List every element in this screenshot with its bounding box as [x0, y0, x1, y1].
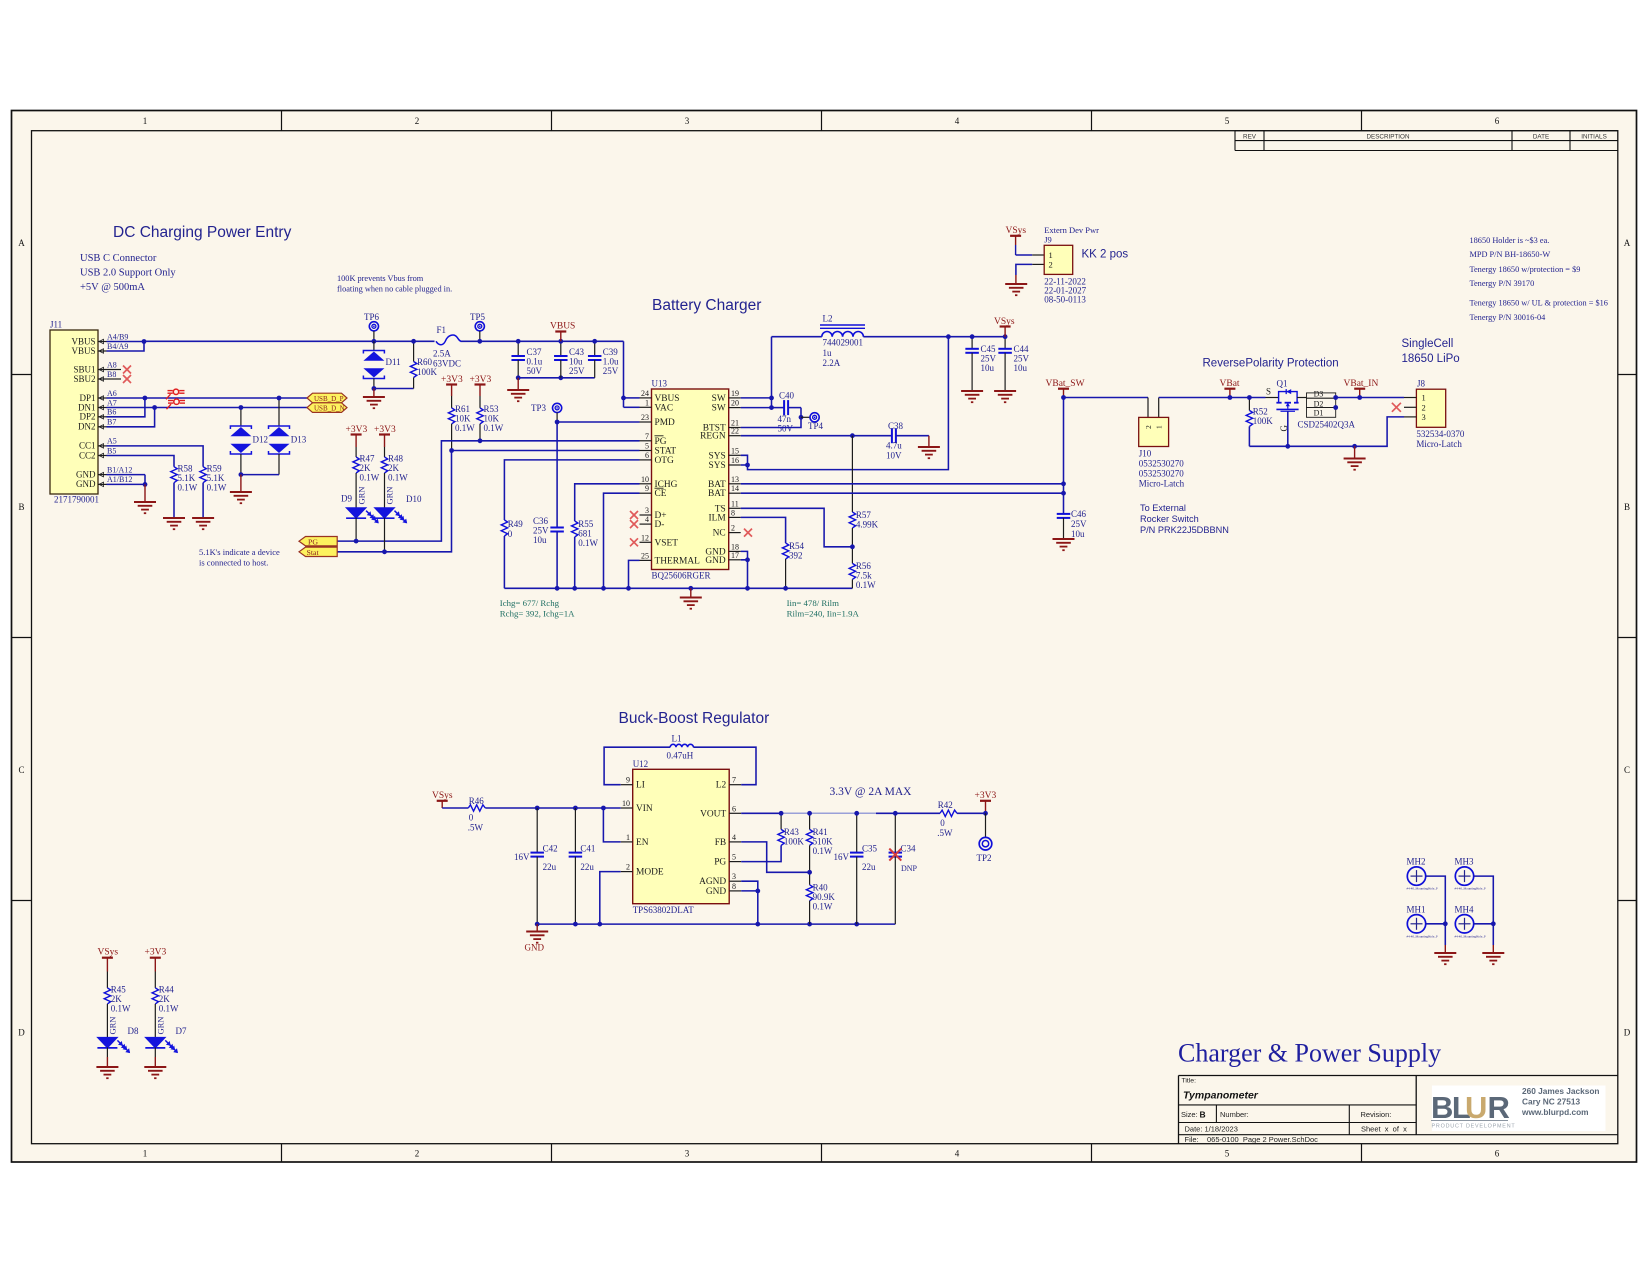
wire VBUS A4/B9 — [107, 341, 145, 343]
test point TP4 — [801, 416, 810, 418]
capacitor C41 — [574, 808, 576, 853]
wire VOUT net — [741, 812, 781, 814]
junction DP — [143, 396, 148, 401]
svg-text:0.1W: 0.1W — [484, 423, 504, 433]
svg-text:Title:: Title: — [1182, 1078, 1197, 1085]
wire OTG net — [504, 460, 639, 520]
svg-text:25V: 25V — [1014, 354, 1030, 364]
capacitor C44 — [1004, 337, 1006, 349]
junction C41 VIN — [573, 806, 578, 811]
wire BTST net — [741, 408, 801, 428]
U13 pin 11 TS — [729, 507, 741, 509]
wire R42 to 3V3 — [957, 812, 986, 814]
inductor L2 — [772, 336, 822, 338]
junction R61 STAT — [449, 448, 454, 453]
svg-text:5.1K's indicate a device: 5.1K's indicate a device — [199, 547, 280, 557]
svg-text:6: 6 — [1495, 1149, 1500, 1159]
ground MH3 MH4 — [1482, 952, 1504, 954]
svg-text:P/N PRK22J5DBBNN: P/N PRK22J5DBBNN — [1140, 525, 1229, 535]
svg-text:1: 1 — [1155, 425, 1164, 429]
svg-text:16V: 16V — [834, 852, 850, 862]
svg-text:C: C — [1624, 765, 1630, 775]
wire AGND GND pins — [741, 881, 758, 891]
svg-text:25V: 25V — [981, 354, 997, 364]
svg-text:90.9K: 90.9K — [813, 892, 836, 902]
LED D10 — [375, 508, 395, 519]
svg-text:C35: C35 — [862, 844, 878, 854]
svg-text:R: R — [1488, 1090, 1510, 1125]
wire MH2 MH1 gnd — [1426, 876, 1446, 945]
junction SW pin19 — [769, 396, 774, 401]
svg-text:R47: R47 — [360, 454, 376, 464]
U12 pin 9 LI — [621, 784, 633, 786]
gnd rail U13 — [504, 587, 852, 589]
svg-text:Date: 1/18/2023: Date: 1/18/2023 — [1185, 1125, 1238, 1134]
svg-text:9: 9 — [645, 484, 649, 493]
svg-text:C44: C44 — [1014, 344, 1030, 354]
svg-text:1: 1 — [143, 1149, 148, 1159]
svg-text:25V: 25V — [603, 366, 619, 376]
svg-text:1: 1 — [626, 833, 630, 842]
svg-text:10u: 10u — [533, 535, 547, 545]
svg-text:D: D — [18, 1028, 25, 1038]
svg-text:D13: D13 — [291, 435, 307, 445]
capacitor C36 — [550, 527, 564, 529]
test point TP3 — [553, 403, 562, 412]
svg-text:25V: 25V — [533, 526, 549, 536]
U13 pin 14 BAT — [729, 492, 741, 494]
svg-text:VOUT: VOUT — [700, 809, 726, 819]
svg-text:08-50-0113: 08-50-0113 — [1044, 295, 1086, 305]
wire VSys to J9 pin1 — [1016, 254, 1033, 256]
power flag +3V3 (output) — [980, 800, 991, 802]
resistor R60 — [413, 341, 415, 361]
wire R53 to PG — [479, 424, 481, 441]
svg-text:B: B — [1200, 1110, 1206, 1120]
svg-text:22u: 22u — [862, 862, 876, 872]
test point TP6 — [369, 322, 378, 331]
net flag Stat — [299, 547, 337, 556]
resistor R49 — [501, 520, 507, 536]
svg-text:AGND: AGND — [699, 877, 726, 887]
resistor R53 — [477, 408, 483, 424]
svg-text:SBU1: SBU1 — [73, 364, 95, 374]
svg-text:3.3V @ 2A MAX: 3.3V @ 2A MAX — [830, 786, 913, 798]
svg-text:SingleCell: SingleCell — [1402, 338, 1454, 350]
svg-text:2.2A: 2.2A — [823, 358, 841, 368]
wire VBat_SW net — [1064, 397, 1149, 399]
svg-text:18650 Holder is ~$3 ea.: 18650 Holder is ~$3 ea. — [1470, 236, 1550, 245]
svg-text:C46: C46 — [1071, 509, 1087, 519]
wire R57 R56 node — [851, 528, 853, 563]
svg-text:.5W: .5W — [937, 828, 953, 838]
wire PG net — [337, 441, 639, 541]
svg-text:PRODUCT DEVELOPMENT: PRODUCT DEVELOPMENT — [1432, 1124, 1516, 1130]
J11 pin A8 SBU1 — [98, 369, 107, 371]
junction TP3 PMD — [555, 420, 560, 425]
svg-text:R56: R56 — [856, 561, 872, 571]
U13 pin 12 VSET — [640, 541, 652, 543]
svg-text:CC1: CC1 — [79, 441, 96, 451]
svg-text:18650 LiPo: 18650 LiPo — [1402, 353, 1460, 365]
ground C37 — [517, 378, 519, 389]
junction C43 top — [558, 339, 563, 344]
no-connect U13 D- — [630, 520, 638, 528]
junction TP6 — [372, 339, 377, 344]
J11 pin B6 DP2 — [98, 416, 107, 418]
svg-text:R59: R59 — [207, 464, 223, 474]
svg-text:B4/A9: B4/A9 — [107, 342, 128, 351]
U12 pin 7 L2 — [729, 784, 741, 786]
junction TP2 — [983, 811, 988, 816]
junction R60 top — [411, 339, 416, 344]
svg-text:Extern Dev Pwr: Extern Dev Pwr — [1044, 225, 1099, 235]
svg-text:R57: R57 — [856, 510, 872, 520]
svg-text:63VDC: 63VDC — [433, 359, 461, 369]
svg-text:MH3: MH3 — [1455, 857, 1475, 867]
svg-text:F1: F1 — [437, 325, 447, 335]
svg-text:C39: C39 — [603, 347, 619, 357]
svg-text:#4-40_MountingHole_P: #4-40_MountingHole_P — [1407, 887, 1438, 891]
svg-text:SYS: SYS — [708, 451, 725, 461]
svg-text:5: 5 — [1225, 1149, 1230, 1159]
wire cap commons — [518, 377, 595, 379]
svg-text:GRN: GRN — [385, 487, 395, 505]
svg-text:0: 0 — [469, 813, 474, 823]
wire D10 to Stat — [384, 518, 386, 552]
svg-text:C41: C41 — [580, 844, 595, 854]
svg-text:KK 2 pos: KK 2 pos — [1082, 249, 1129, 261]
svg-text:+3V3: +3V3 — [470, 375, 492, 385]
svg-text:TP6: TP6 — [364, 312, 380, 322]
title block — [1179, 1075, 1618, 1077]
svg-text:A5: A5 — [107, 437, 117, 446]
resistor R44 — [152, 988, 158, 1004]
svg-text:Number:: Number: — [1220, 1110, 1249, 1119]
junction gnd stem rail — [1352, 444, 1357, 449]
junction C37 top — [516, 339, 521, 344]
svg-text:22: 22 — [731, 427, 739, 436]
svg-text:2.5A: 2.5A — [433, 349, 451, 359]
svg-text:VSys: VSys — [98, 948, 119, 958]
svg-text:THERMAL: THERMAL — [655, 556, 701, 566]
wire TS net — [741, 508, 853, 547]
ground C46 — [1053, 538, 1075, 540]
junction EN VIN — [601, 806, 606, 811]
svg-text:GND: GND — [706, 887, 727, 897]
U13 pin 16 SYS — [729, 464, 741, 466]
svg-text:R42: R42 — [938, 800, 953, 810]
svg-text:25V: 25V — [569, 366, 585, 376]
no-connect C34 DNP mark — [889, 849, 901, 861]
svg-text:0: 0 — [940, 818, 945, 828]
wire drain common — [1336, 397, 1360, 399]
svg-text:TP5: TP5 — [470, 312, 486, 322]
svg-text:Tympanometer: Tympanometer — [1183, 1090, 1259, 1102]
svg-text:47n: 47n — [778, 414, 792, 424]
U13 pin 7 PG — [640, 440, 652, 442]
gnd rail buck — [537, 923, 895, 925]
svg-text:R48: R48 — [388, 454, 404, 464]
svg-text:GND: GND — [76, 469, 96, 479]
svg-text:22u: 22u — [543, 862, 557, 872]
svg-text:Ichg= 677/ Rchg: Ichg= 677/ Rchg — [500, 598, 560, 608]
power flag VBat — [1224, 388, 1235, 390]
resistor R41 — [809, 813, 811, 829]
svg-text:MODE: MODE — [636, 868, 664, 878]
svg-text:R52: R52 — [1253, 407, 1268, 417]
svg-text:SW: SW — [712, 404, 726, 414]
junction D11 bottom — [372, 386, 377, 391]
net label USB_D_N — [307, 403, 347, 413]
ground protection rail — [1354, 446, 1356, 457]
svg-text:3: 3 — [645, 506, 649, 515]
svg-text:392: 392 — [789, 551, 803, 561]
svg-text:20: 20 — [731, 399, 739, 408]
svg-text:8: 8 — [732, 882, 736, 891]
wire Q1 gate — [1287, 411, 1289, 446]
U13 pin 25 THERMAL — [640, 559, 652, 561]
U12 pin 5 PG — [729, 861, 741, 863]
inductor L1 — [604, 747, 670, 785]
junction C45 — [970, 334, 975, 339]
test point TP2 — [985, 813, 987, 837]
svg-text:2171790001: 2171790001 — [54, 495, 99, 505]
svg-text:14: 14 — [731, 484, 739, 493]
wire CC1 to R59 — [107, 446, 204, 467]
wire THERMAL net — [629, 560, 640, 588]
svg-text:USB_D_P: USB_D_P — [314, 395, 344, 403]
svg-text:C36: C36 — [533, 516, 549, 526]
svg-text:3: 3 — [685, 116, 690, 126]
svg-text:SBU2: SBU2 — [73, 374, 95, 384]
svg-text:1: 1 — [1049, 250, 1053, 260]
wire D7 to gnd — [154, 1047, 156, 1057]
Q1 drain pin boxes D3 D2 D1 — [1307, 393, 1336, 398]
svg-text:U13: U13 — [652, 379, 668, 389]
svg-text:Revision:: Revision: — [1361, 1110, 1392, 1119]
svg-text:C43: C43 — [569, 347, 585, 357]
net flag PG — [299, 537, 337, 546]
svg-text:C37: C37 — [527, 347, 543, 357]
svg-text:TPS63802DLAT: TPS63802DLAT — [633, 905, 695, 915]
svg-text:CE: CE — [655, 489, 667, 499]
svg-text:Rchg= 392, Ichg=1A: Rchg= 392, Ichg=1A — [500, 609, 575, 619]
ground D8 — [96, 1066, 118, 1068]
resistor R48 — [381, 457, 387, 473]
svg-text:2: 2 — [1144, 425, 1153, 429]
svg-text:11: 11 — [731, 499, 739, 508]
svg-text:File: 065-0100_Page 2 Power: File: 065-0100_Page 2 Power.SchDoc — [1185, 1135, 1319, 1144]
svg-text:NC: NC — [713, 529, 726, 539]
TVS diode D12 — [240, 408, 242, 427]
wire ICHG net — [575, 484, 640, 521]
svg-text:Tenergy 18650 w/ UL & protecti: Tenergy 18650 w/ UL & protection = $16 — [1470, 299, 1608, 308]
wire R43 to PG — [741, 845, 781, 861]
wire SYS net — [741, 455, 748, 465]
U13 pin 21 BTST — [729, 427, 741, 429]
no-connect SBU1 — [107, 369, 122, 371]
svg-text:6: 6 — [645, 451, 649, 460]
svg-text:0.1W: 0.1W — [111, 1004, 131, 1014]
connector J8 — [1416, 389, 1445, 427]
svg-text:D9: D9 — [341, 494, 352, 504]
resistor R59 — [200, 467, 206, 483]
wire J8 pin3 to gnd — [1249, 417, 1404, 446]
svg-text:5.1K: 5.1K — [178, 473, 196, 483]
svg-text:+3V3: +3V3 — [975, 791, 997, 801]
svg-text:PG: PG — [714, 858, 726, 868]
J8 pin 1 — [1404, 397, 1416, 399]
junction VBat_SW — [1061, 395, 1066, 400]
svg-text:Tenergy 18650 w/protection = $: Tenergy 18650 w/protection = $9 — [1470, 265, 1581, 274]
svg-text:0.1W: 0.1W — [813, 902, 833, 912]
wire SW riser — [741, 397, 772, 399]
svg-text:2: 2 — [415, 1149, 420, 1159]
junction D13 top — [277, 396, 282, 401]
svg-text:2K: 2K — [159, 994, 171, 1004]
capacitor C45 — [971, 337, 973, 349]
svg-text:U: U — [1465, 1090, 1486, 1125]
svg-text:0532530270: 0532530270 — [1139, 469, 1185, 479]
wire VBUS B4/A9 up — [107, 342, 145, 352]
wire R49 to rail — [503, 536, 505, 588]
svg-text:L2: L2 — [823, 314, 833, 324]
differential pair marker N — [174, 399, 179, 404]
junction C42 VIN — [535, 806, 540, 811]
U13 pin 15 SYS — [729, 454, 741, 456]
U13 pin 8 ILM — [729, 516, 741, 518]
svg-text:A: A — [18, 238, 25, 248]
svg-text:1: 1 — [1422, 393, 1426, 403]
wire R46 to VIN — [485, 807, 620, 809]
svg-text:0.1W: 0.1W — [207, 483, 227, 493]
junction SYS riser top — [946, 334, 951, 339]
wire R45 to D8 — [106, 1004, 108, 1038]
svg-text:R49: R49 — [508, 519, 524, 529]
svg-text:D8: D8 — [128, 1026, 139, 1036]
wire VBat net — [1159, 397, 1266, 399]
svg-text:260 James Jackson: 260 James Jackson — [1522, 1086, 1600, 1096]
junction R54 rail — [783, 586, 788, 591]
svg-text:9: 9 — [626, 776, 630, 785]
capacitor C40 — [772, 407, 785, 409]
svg-text:CSD25402Q3A: CSD25402Q3A — [1298, 420, 1356, 430]
svg-text:LI: LI — [636, 781, 645, 791]
svg-text:0.47uH: 0.47uH — [667, 751, 694, 761]
svg-text:U12: U12 — [633, 759, 649, 769]
junction J11 GND — [143, 482, 148, 487]
U13 pin 20 SW — [729, 407, 741, 409]
ground D7 — [144, 1066, 166, 1068]
junction VBat_IN — [1357, 395, 1362, 400]
junction C35 VOUT — [854, 811, 859, 816]
ground C45 — [961, 390, 983, 392]
resistor R43 (PG pullup) — [780, 813, 782, 829]
U13 pin 3 D+ — [640, 514, 652, 516]
mounting hole MH2 — [1407, 867, 1425, 885]
capacitor C34 DNP — [894, 813, 896, 852]
ground U13 rail — [690, 588, 692, 596]
LED D7 — [145, 1037, 165, 1048]
svg-text:VSET: VSET — [655, 538, 679, 548]
svg-text:D12: D12 — [253, 435, 269, 445]
svg-text:7: 7 — [645, 432, 649, 441]
svg-text:REV: REV — [1243, 133, 1257, 140]
svg-text:J11: J11 — [50, 320, 62, 330]
svg-text:#4-40_MountingHole_P: #4-40_MountingHole_P — [1455, 887, 1486, 891]
U13 pin 4 D- — [640, 523, 652, 525]
U13 pin 18 GND — [729, 550, 741, 552]
svg-text:USB 2.0 Support Only: USB 2.0 Support Only — [80, 268, 176, 279]
svg-text:1u: 1u — [823, 348, 833, 358]
svg-text:GND: GND — [525, 943, 545, 953]
no-connect J8 pin2 — [1392, 403, 1401, 412]
svg-text:+3V3: +3V3 — [346, 425, 368, 435]
svg-text:DC Charging Power Entry: DC Charging Power Entry — [113, 224, 292, 241]
U13 pin 5 STAT — [640, 450, 652, 452]
svg-text:C: C — [18, 765, 24, 775]
ground R59 — [192, 517, 214, 519]
svg-text:100K: 100K — [417, 367, 438, 377]
junction D9 PG — [354, 539, 359, 544]
svg-text:Cary NC 27513: Cary NC 27513 — [1522, 1097, 1581, 1107]
power flag +3V3 (LED) — [150, 957, 161, 959]
resistor R54 — [782, 543, 788, 559]
svg-text:GRN: GRN — [108, 1017, 118, 1035]
wire R48 to D10 — [384, 473, 386, 508]
svg-text:PG: PG — [655, 437, 667, 447]
J11 pin B1/A12 GND — [98, 474, 107, 476]
svg-text:100K prevents Vbus from: 100K prevents Vbus from — [337, 274, 424, 283]
svg-text:D3: D3 — [1314, 390, 1324, 399]
svg-text:D7: D7 — [176, 1026, 187, 1036]
power flag +3V3 (PG pullup) — [475, 383, 486, 385]
wire VSys to R46 — [442, 807, 468, 809]
power flag VSys (charger) — [1000, 325, 1011, 327]
U12 pin 6 VOUT — [729, 812, 741, 814]
svg-text:Stat: Stat — [307, 548, 320, 557]
power flag +3V3 (D10) — [379, 433, 390, 435]
wire to J8 pin1 — [1360, 397, 1404, 399]
capacitor C42 — [536, 808, 538, 853]
svg-text:B5: B5 — [107, 446, 116, 455]
svg-text:Buck-Boost Regulator: Buck-Boost Regulator — [619, 710, 770, 727]
junction C44 — [1003, 334, 1008, 339]
LED D9 — [346, 508, 366, 519]
wire R56 to rail — [851, 579, 853, 588]
svg-text:10V: 10V — [886, 451, 902, 461]
U13 pin 17 GND — [729, 559, 741, 561]
svg-text:6: 6 — [732, 804, 736, 813]
wire D11 gnd stem — [373, 389, 375, 397]
wire EN net — [603, 808, 620, 842]
junction Q1 gate rail — [1285, 444, 1290, 449]
svg-text:.5W: .5W — [468, 823, 484, 833]
svg-text:0.1u: 0.1u — [527, 357, 543, 367]
svg-text:B1/A12: B1/A12 — [107, 465, 132, 474]
svg-text:0: 0 — [508, 529, 513, 539]
svg-text:3: 3 — [685, 1149, 690, 1159]
svg-text:10K: 10K — [484, 414, 500, 424]
wire PMD to C36 — [556, 422, 558, 528]
wire CE net — [604, 493, 640, 588]
J11 pin A6 DP1 — [98, 397, 107, 399]
svg-text:2K: 2K — [111, 994, 123, 1004]
svg-text:VBUS: VBUS — [71, 346, 95, 356]
svg-text:GRN: GRN — [156, 1017, 166, 1035]
net label USB_D_P — [307, 393, 347, 403]
